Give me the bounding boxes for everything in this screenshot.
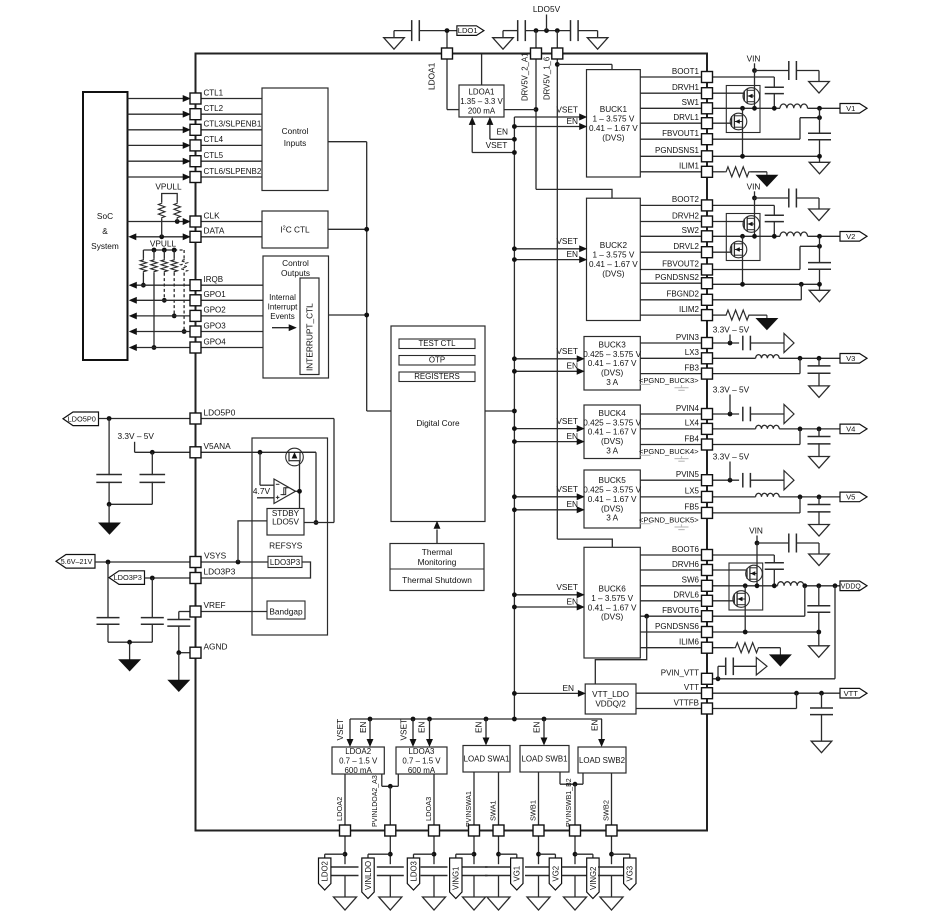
svg-text:600 mA: 600 mA [345, 766, 373, 775]
svg-text:VSET: VSET [335, 719, 345, 741]
svg-text:SWA1: SWA1 [488, 800, 497, 821]
svg-text:0.7 – 1.5 V: 0.7 – 1.5 V [402, 756, 441, 765]
svg-text:<PGND_BUCK5>: <PGND_BUCK5> [639, 515, 699, 524]
svg-text:Thermal Shutdown: Thermal Shutdown [402, 575, 472, 585]
svg-text:3.3V – 5V: 3.3V – 5V [713, 325, 750, 335]
svg-text:LDO3P3: LDO3P3 [204, 566, 236, 576]
svg-text:VPULL: VPULL [150, 239, 177, 249]
svg-text:EN: EN [562, 683, 574, 693]
svg-text:LDO3P3: LDO3P3 [270, 558, 301, 567]
svg-text:VSET: VSET [556, 236, 578, 246]
svg-text:1 – 3.575 V: 1 – 3.575 V [592, 251, 634, 260]
svg-text:FBGND2: FBGND2 [667, 290, 700, 299]
svg-text:0.41 – 1.67 V: 0.41 – 1.67 V [589, 124, 638, 133]
svg-text:ILIM2: ILIM2 [679, 305, 700, 314]
svg-text:LDOA2: LDOA2 [345, 747, 371, 756]
svg-text:VTT: VTT [684, 683, 699, 692]
svg-text:VIN: VIN [747, 181, 761, 191]
svg-text:LX3: LX3 [685, 348, 700, 357]
svg-text:VTT: VTT [844, 689, 859, 698]
svg-text:CTL6/SLPENB2: CTL6/SLPENB2 [204, 167, 262, 176]
svg-text:CTL3/SLPENB1: CTL3/SLPENB1 [204, 120, 262, 129]
svg-text:&: & [102, 226, 108, 236]
svg-text:VSET: VSET [556, 346, 578, 356]
svg-text:<PGND_BUCK3>: <PGND_BUCK3> [639, 376, 699, 385]
svg-text:VIN: VIN [747, 53, 761, 63]
svg-text:CTL4: CTL4 [204, 135, 224, 144]
svg-text:0.41 – 1.67 V: 0.41 – 1.67 V [588, 428, 637, 437]
svg-text:VSET: VSET [556, 104, 578, 114]
svg-text:LDO2: LDO2 [321, 861, 330, 881]
svg-text:VPULL: VPULL [155, 182, 182, 192]
svg-text:LDOA1: LDOA1 [469, 88, 495, 97]
svg-text:BUCK4: BUCK4 [598, 409, 626, 418]
svg-text:GPO4: GPO4 [204, 337, 227, 346]
svg-text:BUCK1: BUCK1 [600, 105, 628, 114]
svg-text:SW2: SW2 [682, 226, 700, 235]
svg-text:(DVS): (DVS) [602, 133, 625, 142]
svg-text:DRV5V_2_A1: DRV5V_2_A1 [521, 53, 530, 101]
svg-text:VINLDO: VINLDO [364, 861, 373, 890]
svg-text:SWB2: SWB2 [601, 800, 610, 821]
svg-text:GPO1: GPO1 [204, 290, 227, 299]
svg-text:EN: EN [566, 361, 578, 371]
svg-text:SW6: SW6 [682, 576, 700, 585]
svg-text:VG2: VG2 [551, 866, 560, 882]
svg-text:I2C CTL: I2C CTL [280, 225, 310, 235]
svg-text:V5ANA: V5ANA [204, 441, 232, 451]
svg-text:BUCK2: BUCK2 [600, 241, 628, 250]
svg-text:PVINSWB1_B2: PVINSWB1_B2 [566, 778, 573, 827]
svg-text:V4: V4 [846, 425, 855, 434]
svg-text:REGISTERS: REGISTERS [414, 372, 460, 381]
svg-text:LX5: LX5 [685, 487, 700, 496]
svg-text:PVIN5: PVIN5 [676, 470, 700, 479]
svg-text:4.7V: 4.7V [253, 486, 271, 496]
svg-text:SoC: SoC [97, 211, 113, 221]
svg-text:EN: EN [474, 721, 484, 733]
svg-text:VREF: VREF [204, 600, 226, 610]
svg-text:DRVH2: DRVH2 [672, 211, 700, 220]
svg-text:EN: EN [358, 721, 368, 733]
svg-text:0.41 – 1.67 V: 0.41 – 1.67 V [588, 603, 637, 612]
svg-text:SWB1: SWB1 [528, 800, 537, 821]
svg-text:1.35 – 3.3 V: 1.35 – 3.3 V [460, 97, 503, 106]
svg-text:BUCK3: BUCK3 [598, 340, 626, 349]
svg-text:ILIM6: ILIM6 [679, 638, 700, 647]
svg-text:VSET: VSET [556, 484, 578, 494]
svg-text:3.3V – 5V: 3.3V – 5V [713, 452, 750, 462]
svg-text:System: System [91, 241, 119, 251]
svg-text:V5: V5 [846, 493, 855, 502]
svg-text:DRVL6: DRVL6 [673, 591, 699, 600]
svg-text:PVIN_VTT: PVIN_VTT [661, 669, 699, 678]
svg-text:FB4: FB4 [684, 434, 699, 443]
svg-text:FBVOUT2: FBVOUT2 [662, 259, 699, 268]
svg-text:GPO2: GPO2 [204, 306, 227, 315]
svg-text:BUCK5: BUCK5 [598, 476, 626, 485]
svg-text:CTL2: CTL2 [204, 104, 224, 113]
svg-text:BOOT2: BOOT2 [672, 195, 700, 204]
svg-text:VING1: VING1 [452, 867, 461, 890]
svg-text:0.425 – 3.575 V: 0.425 – 3.575 V [583, 418, 641, 427]
svg-text:IRQB: IRQB [204, 275, 224, 284]
svg-text:VTTFB: VTTFB [674, 698, 699, 707]
svg-text:VSET: VSET [556, 582, 578, 592]
svg-text:5.6V–21V: 5.6V–21V [61, 557, 93, 566]
svg-text:DRVH1: DRVH1 [672, 83, 700, 92]
svg-text:EN: EN [566, 249, 578, 259]
svg-text:EN: EN [496, 127, 508, 137]
svg-text:3 A: 3 A [606, 378, 618, 387]
svg-text:V2: V2 [846, 232, 855, 241]
svg-text:(DVS): (DVS) [601, 613, 624, 622]
svg-text:3 A: 3 A [606, 514, 618, 523]
svg-text:EN: EN [566, 499, 578, 509]
svg-text:(DVS): (DVS) [601, 437, 624, 446]
svg-text:0.41 – 1.67 V: 0.41 – 1.67 V [588, 495, 637, 504]
svg-text:EN: EN [417, 721, 427, 733]
svg-text:FBVOUT1: FBVOUT1 [662, 129, 699, 138]
svg-text:1 – 3.575 V: 1 – 3.575 V [591, 594, 633, 603]
svg-text:LDO1: LDO1 [458, 26, 478, 35]
svg-text:0.425 – 3.575 V: 0.425 – 3.575 V [583, 486, 641, 495]
svg-text:DRVL1: DRVL1 [673, 113, 699, 122]
svg-text:PVINSWA1: PVINSWA1 [466, 791, 473, 827]
svg-text:EN: EN [590, 719, 600, 731]
svg-text:LOAD SWB2: LOAD SWB2 [579, 756, 625, 765]
svg-text:FB3: FB3 [684, 363, 699, 372]
svg-text:CTL1: CTL1 [204, 88, 224, 97]
svg-text:VSYS: VSYS [204, 550, 227, 560]
svg-text:Control: Control [282, 126, 309, 136]
svg-text:LDO5V: LDO5V [533, 4, 561, 14]
svg-text:BUCK6: BUCK6 [598, 584, 626, 593]
svg-text:Digital Core: Digital Core [416, 418, 460, 428]
svg-text:LDOA3: LDOA3 [424, 797, 433, 821]
svg-text:LDO5P0: LDO5P0 [68, 414, 96, 423]
svg-text:VSET: VSET [399, 719, 409, 741]
svg-text:Interrupt: Interrupt [268, 303, 299, 312]
svg-text:PVIN4: PVIN4 [676, 404, 700, 413]
svg-text:DRV5V_1_6: DRV5V_1_6 [543, 57, 552, 100]
svg-text:3 A: 3 A [606, 446, 618, 455]
svg-text:PGNDSNS1: PGNDSNS1 [655, 146, 700, 155]
svg-text:DRVH6: DRVH6 [672, 560, 700, 569]
svg-text:CTL5: CTL5 [204, 151, 224, 160]
svg-text:600 mA: 600 mA [408, 766, 436, 775]
svg-text:SW1: SW1 [682, 98, 700, 107]
svg-text:EN: EN [532, 721, 542, 733]
svg-text:3.3V – 5V: 3.3V – 5V [713, 385, 750, 395]
svg-text:Inputs: Inputs [284, 138, 307, 148]
svg-text:INTERRUPT_CTL: INTERRUPT_CTL [305, 303, 315, 371]
svg-text:<PGND_BUCK4>: <PGND_BUCK4> [639, 447, 699, 456]
svg-text:LOAD SWB1: LOAD SWB1 [521, 755, 567, 764]
svg-text:AGND: AGND [204, 641, 228, 651]
svg-text:VSET: VSET [486, 140, 508, 150]
svg-text:0.425 – 3.575 V: 0.425 – 3.575 V [583, 350, 641, 359]
svg-text:GPO3: GPO3 [204, 321, 227, 330]
svg-text:ILIM1: ILIM1 [679, 162, 700, 171]
svg-text:FB5: FB5 [684, 503, 699, 512]
svg-text:VTT_LDO: VTT_LDO [592, 690, 629, 699]
svg-text:(DVS): (DVS) [602, 269, 625, 278]
svg-text:Outputs: Outputs [281, 268, 310, 278]
svg-text:3.3V – 5V: 3.3V – 5V [117, 431, 154, 441]
svg-text:VG1: VG1 [513, 866, 522, 882]
svg-text:EN: EN [566, 116, 578, 126]
svg-text:PGNDSNS2: PGNDSNS2 [655, 273, 700, 282]
svg-text:VING2: VING2 [589, 867, 598, 890]
svg-text:VG3: VG3 [626, 866, 635, 882]
svg-text:1 – 3.575 V: 1 – 3.575 V [592, 115, 634, 124]
svg-text:REFSYS: REFSYS [269, 541, 303, 551]
svg-text:Events: Events [270, 312, 294, 321]
svg-text:DATA: DATA [204, 226, 225, 236]
svg-text:Monitoring: Monitoring [418, 557, 457, 567]
svg-text:Bandgap: Bandgap [269, 607, 303, 617]
svg-text:LDO5P0: LDO5P0 [204, 407, 236, 417]
svg-text:0.41 – 1.67 V: 0.41 – 1.67 V [589, 260, 638, 269]
svg-text:LDOA3: LDOA3 [409, 747, 435, 756]
svg-text:(DVS): (DVS) [601, 369, 624, 378]
svg-text:LDOA2: LDOA2 [335, 797, 344, 821]
svg-text:FBVOUT6: FBVOUT6 [662, 606, 699, 615]
svg-text:VDDQ: VDDQ [841, 583, 862, 590]
svg-text:DRVL2: DRVL2 [673, 242, 699, 251]
svg-text:PGNDSNS6: PGNDSNS6 [655, 622, 700, 631]
svg-text:CLK: CLK [204, 210, 221, 220]
svg-text:PVIN3: PVIN3 [676, 333, 700, 342]
svg-text:EN: EN [566, 596, 578, 606]
svg-text:LX4: LX4 [685, 419, 700, 428]
svg-text:BOOT1: BOOT1 [672, 67, 700, 76]
svg-text:Thermal: Thermal [422, 547, 453, 557]
svg-text:0.7 – 1.5 V: 0.7 – 1.5 V [339, 756, 378, 765]
svg-text:TEST CTL: TEST CTL [418, 339, 456, 348]
svg-text:OTP: OTP [429, 356, 445, 365]
svg-text:LDO3: LDO3 [409, 861, 418, 881]
svg-text:V3: V3 [846, 354, 855, 363]
svg-text:(DVS): (DVS) [601, 504, 624, 513]
svg-text:Internal: Internal [269, 293, 296, 302]
svg-text:VSET: VSET [556, 416, 578, 426]
svg-text:V1: V1 [846, 104, 855, 113]
svg-text:LDO5V: LDO5V [272, 518, 299, 527]
svg-text:0.41 – 1.67 V: 0.41 – 1.67 V [588, 359, 637, 368]
svg-text:200 mA: 200 mA [468, 106, 496, 115]
svg-text:LOAD SWA1: LOAD SWA1 [464, 755, 510, 764]
svg-text:VIN: VIN [749, 526, 763, 536]
svg-text:BOOT6: BOOT6 [672, 545, 700, 554]
svg-text:VDDQ/2: VDDQ/2 [595, 700, 626, 709]
svg-text:Control: Control [282, 258, 309, 268]
svg-text:PVINLDOA2_A3: PVINLDOA2_A3 [372, 775, 379, 827]
svg-text:LDO3P3: LDO3P3 [114, 573, 142, 582]
svg-text:EN: EN [566, 431, 578, 441]
svg-text:LDOA1: LDOA1 [427, 62, 437, 90]
